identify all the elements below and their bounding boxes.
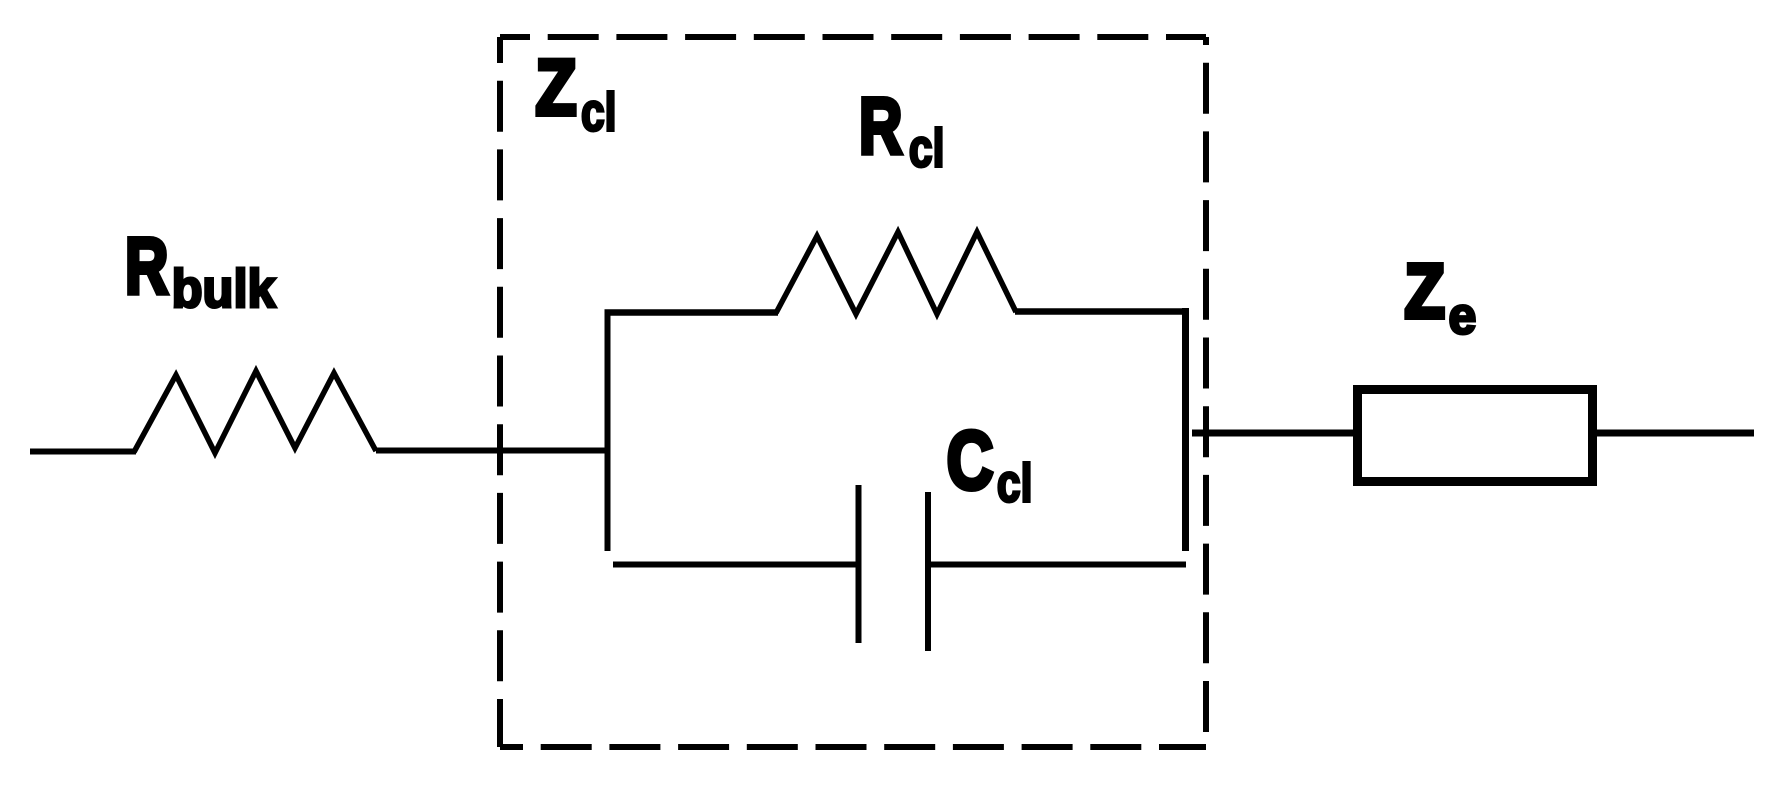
dashed box Zcl (left edge) bbox=[497, 37, 503, 747]
wire right lead bbox=[1597, 430, 1754, 437]
node: inner right vertical wire bbox=[1182, 308, 1189, 551]
svg-text:R: R bbox=[859, 81, 902, 170]
label Rcl bbox=[859, 81, 944, 179]
svg-text:Z: Z bbox=[536, 45, 577, 132]
resistor Rbulk bbox=[134, 371, 376, 453]
dashed box Zcl (top edge) bbox=[500, 34, 1206, 40]
svg-text:cl: cl bbox=[909, 119, 944, 179]
wire top-right of parallel branch bbox=[1015, 308, 1189, 315]
capacitor Ccl right plate bbox=[925, 492, 931, 651]
label Zcl bbox=[536, 45, 617, 143]
wire bottom-left of parallel branch bbox=[613, 562, 856, 568]
capacitor Ccl left plate bbox=[856, 485, 862, 643]
svg-text:e: e bbox=[1449, 287, 1477, 345]
svg-text:Z: Z bbox=[1405, 249, 1445, 335]
wire top-left of parallel branch bbox=[605, 309, 779, 316]
dashed box Zcl (bottom edge) bbox=[500, 744, 1206, 750]
svg-text:cl: cl bbox=[581, 83, 616, 143]
wire from Zcl box to Ze bbox=[1192, 430, 1353, 437]
wire between Rbulk and Zcl box bbox=[376, 448, 610, 454]
wire left lead bbox=[30, 449, 136, 455]
resistor Rcl bbox=[776, 232, 1016, 314]
label Ccl bbox=[947, 414, 1033, 514]
dashed box Zcl (right edge) bbox=[1203, 37, 1209, 747]
wire bottom-right of parallel branch bbox=[928, 562, 1186, 568]
node: inner left vertical wire bbox=[605, 311, 611, 551]
svg-text:bulk: bulk bbox=[172, 260, 277, 320]
impedance element Ze (box) bbox=[1358, 390, 1593, 482]
label Ze bbox=[1405, 249, 1477, 345]
svg-text:C: C bbox=[947, 414, 994, 506]
svg-text:cl: cl bbox=[997, 454, 1032, 514]
svg-text:R: R bbox=[125, 221, 168, 310]
label Rbulk bbox=[125, 221, 277, 319]
